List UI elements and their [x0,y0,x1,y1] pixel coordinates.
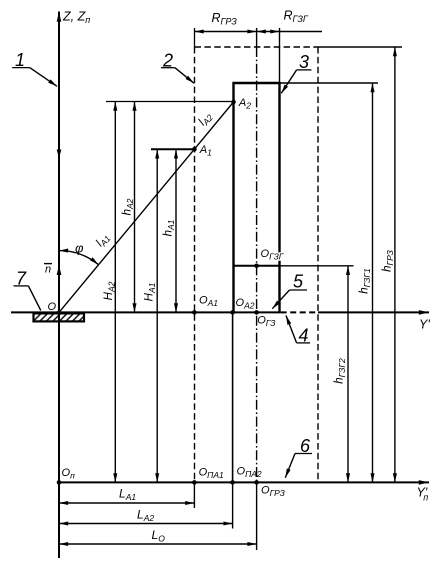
extension of OГЗГ level to hГЗГ2 [280,265,354,267]
dimension LO [59,543,257,545]
dimension hГЗГ2 [347,266,349,483]
point OA2 [230,297,254,315]
dimension hA2 [134,102,136,313]
dashed vertical line right [317,47,319,482]
svg-text:ОА1: ОА1 [199,295,218,309]
point OГЗ [254,310,276,328]
svg-text:Y': Y' [419,318,430,332]
extension line at A2 level [106,101,234,103]
axis Y' (horizontal through O) [11,311,429,313]
dashed horizontal line top [195,46,319,48]
callout 1 [12,50,57,86]
svg-text:ОГЗГ: ОГЗГ [261,248,285,262]
dimension LA1 [59,502,194,504]
svg-text:LА2: LА2 [137,508,154,524]
callout 2 [161,51,194,84]
svg-text:ОПА2: ОПА2 [237,466,262,480]
point OГЗГ [254,248,285,268]
point OПА1 [192,467,224,485]
extension line right side of rectangle up to R dimension [279,28,281,83]
svg-text:A1: A1 [199,144,212,158]
dimension HA1 [156,149,158,482]
extension line OПА1 below axis [193,482,195,508]
svg-text:ОА2: ОА2 [236,297,255,311]
point OПА2 [230,466,262,485]
callout 4 [286,316,310,346]
extension line at A1 level [151,148,194,150]
axis Z (vertical, item 1) [58,12,60,559]
vector n arrowhead [57,265,62,275]
dimension hГРЗ [394,47,396,482]
hatched base plate (item 7) [34,313,85,321]
axis Yп' (horizontal through Oп) [59,481,429,483]
extension of rectangle top to hГЗГ1 [280,82,379,84]
svg-text:5: 5 [293,272,304,292]
point Oп [57,467,75,485]
svg-text:RГРЗ: RГРЗ [212,11,238,27]
svg-text:ОГЗ: ОГЗ [257,315,276,329]
callout 5 [272,272,307,309]
svg-text:hА1: hА1 [163,219,177,236]
svg-text:hГЗГ2: hГЗГ2 [334,358,348,384]
svg-text:Оп: Оп [62,467,76,481]
arrowhead down on Z axis [57,150,62,159]
svg-text:ОГРЗ: ОГРЗ [261,485,286,499]
label n bar [44,264,52,276]
center line (dash-dot) [256,28,258,550]
svg-text:lА1: lА1 [94,231,113,250]
svg-text:hГРЗ: hГРЗ [382,249,396,272]
svg-text:ОПА1: ОПА1 [199,467,224,481]
svg-text:Z, Zп: Z, Zп [62,10,90,26]
svg-text:HА2: HА2 [103,281,117,300]
top line for hГРЗ [318,46,402,48]
ray l (antenna beam O to A2) [59,102,234,312]
svg-text:lА2: lА2 [196,110,215,129]
interior line at OГЗГ level [234,265,280,267]
svg-text:n: n [45,264,51,276]
extension line OA2 to OПА2 [232,312,234,528]
svg-text:A2: A2 [238,97,251,111]
dimension hA1 [175,149,177,312]
svg-text:hА2: hА2 [122,198,136,215]
callout 3 [281,52,311,93]
svg-text:Y'п: Y'п [417,486,429,503]
dimension hГЗГ1 [372,83,374,482]
svg-text:3: 3 [299,52,309,72]
dimension HA2 [114,102,116,483]
dimension RГРЗ [195,31,257,33]
angle phi arc [59,251,99,265]
point A2 [231,97,251,111]
svg-text:hГЗГ1: hГЗГ1 [359,268,373,294]
callout 7 [14,269,41,311]
dashed vertical line (item 2) [194,28,196,482]
point OA1 [192,295,218,315]
dimension RГЗГ [257,31,322,33]
point OГРЗ [254,480,285,498]
svg-text:О: О [48,301,57,313]
svg-text:LО: LО [152,528,166,544]
callout 6 [285,436,312,478]
rectangle body (item 3) [234,83,280,312]
svg-text:φ: φ [75,241,84,256]
svg-text:LА1: LА1 [119,487,136,503]
point A1 [192,144,212,158]
svg-text:HА1: HА1 [144,282,158,301]
svg-text:RГЗГ: RГЗГ [284,9,309,25]
dimension LA2 [59,523,233,525]
point O origin [48,301,62,314]
